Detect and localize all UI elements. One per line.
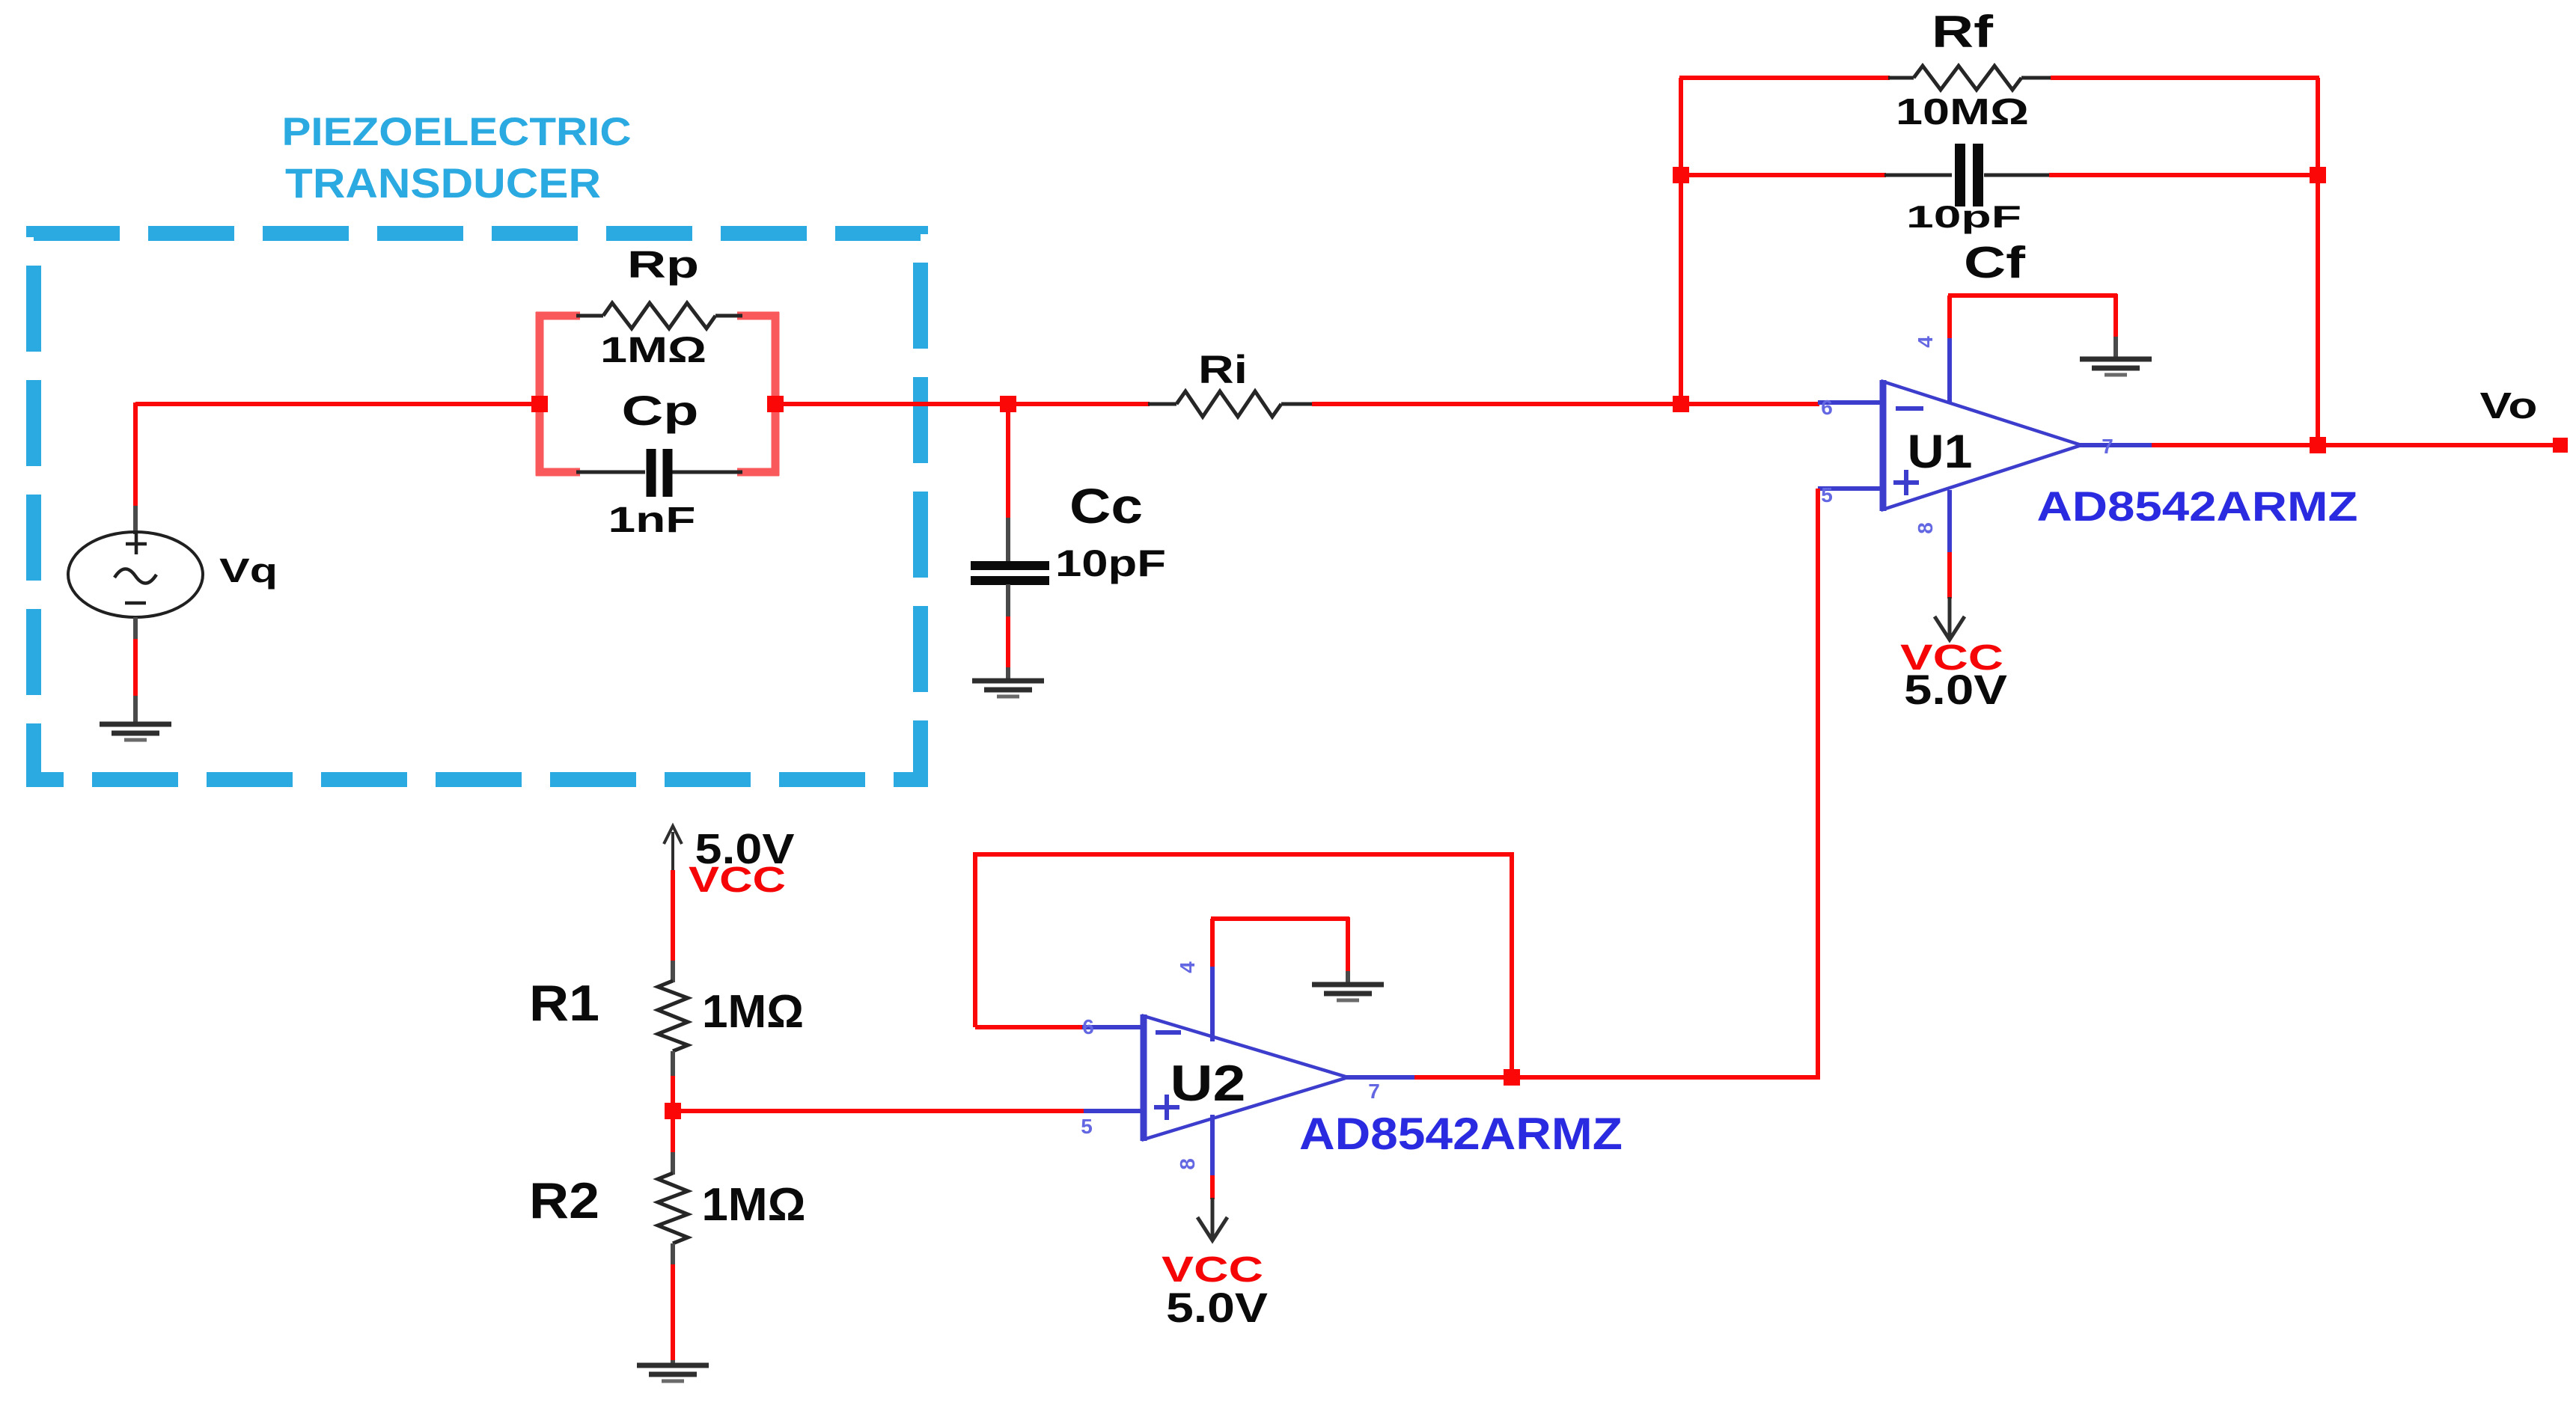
svg-text:5.0V: 5.0V	[1904, 666, 2007, 713]
U2 pin number 5	[1081, 1115, 1093, 1138]
U1 plus symbol	[1893, 470, 1919, 495]
U2 non-inverting input pin wire (pin 5)	[1082, 1109, 1145, 1113]
svg-text:10pF: 10pF	[1906, 199, 2021, 234]
svg-text:Ri: Ri	[1198, 348, 1248, 392]
label U2	[1171, 1055, 1246, 1112]
ground for U1 bypass	[2080, 359, 2152, 375]
svg-text:Vq: Vq	[219, 551, 278, 590]
label 10pF for Cf	[1906, 199, 2021, 234]
label VCC for U2	[1162, 1250, 1263, 1290]
label VCC for U1	[1900, 638, 2003, 678]
svg-text:U1: U1	[1908, 426, 1973, 478]
wire Ri to U1 inverting input	[1312, 402, 1819, 406]
label Cp	[622, 387, 699, 434]
node dot right of Rp/Cp box	[767, 396, 784, 412]
svg-text:TRANSDUCER: TRANSDUCER	[285, 159, 601, 206]
label 10M&#937; for Rf	[1896, 92, 2029, 132]
U2 inverting input pin wire (pin 6)	[1082, 1025, 1145, 1029]
label Rf	[1932, 7, 1994, 57]
wire R2 to ground	[671, 1243, 675, 1365]
U1 pin number 4 (rotated)	[1914, 336, 1937, 348]
label U1	[1908, 426, 1973, 478]
svg-text:5: 5	[1821, 483, 1833, 506]
svg-text:8: 8	[1914, 522, 1937, 534]
svg-text:10pF: 10pF	[1055, 542, 1166, 584]
U1 inverting input pin wire (pin 6)	[1818, 400, 1884, 405]
wire U2 output right	[1414, 1075, 1819, 1080]
node dot U2 output junction	[1504, 1069, 1520, 1086]
VCC arrow below U1	[1935, 597, 1965, 640]
label 10pF for Cc	[1055, 542, 1166, 584]
label AD8542ARMZ for U1	[2037, 483, 2358, 530]
VCC arrow below U2	[1197, 1198, 1227, 1240]
label Cf	[1964, 238, 2025, 287]
svg-text:8: 8	[1176, 1158, 1199, 1170]
label R1	[529, 975, 599, 1032]
U2 pin number 4 (rotated)	[1176, 961, 1199, 973]
svg-text:7: 7	[2102, 435, 2113, 458]
svg-text:Vo: Vo	[2480, 386, 2538, 426]
ground below Vq	[100, 724, 171, 740]
label Rp	[627, 243, 699, 286]
wire feedback left vertical	[1679, 78, 1683, 405]
U1 pin number 7	[2102, 435, 2113, 458]
U2 pin number 8 (rotated)	[1176, 1158, 1199, 1170]
label 1nF for Cp	[608, 501, 696, 540]
wire Vq bottom lead	[133, 617, 138, 723]
U1 pin number 8 (rotated)	[1914, 522, 1937, 534]
svg-text:1nF: 1nF	[608, 501, 696, 540]
node dot Vo terminal	[2553, 438, 2568, 453]
svg-text:5.0V: 5.0V	[1166, 1284, 1268, 1331]
wire Cc branch lower	[1006, 584, 1010, 681]
parallel box around Rp and Cp (thick pink outline)	[536, 312, 779, 476]
svg-text:1MΩ: 1MΩ	[600, 331, 706, 370]
U1 pin number 6	[1821, 396, 1833, 419]
wire U1 bypass to ground top	[1948, 294, 2117, 358]
svg-text:6: 6	[1821, 396, 1833, 419]
wire U2 output to U1 non-inverting input	[1512, 489, 1818, 1077]
svg-text:4: 4	[1914, 336, 1937, 348]
U1 pin 4 wire (top, positive supply)	[1947, 296, 1952, 404]
resistor R1 zigzag	[658, 981, 688, 1051]
label Vo	[2480, 386, 2538, 426]
svg-text:R2: R2	[529, 1172, 599, 1229]
resistor Rp leads	[576, 314, 742, 318]
svg-text:5: 5	[1081, 1115, 1093, 1138]
U2 pin 4 wire (top)	[1210, 919, 1215, 1041]
capacitor Cf plates	[1960, 144, 1978, 206]
label 1M&#937; for R1	[702, 986, 804, 1038]
svg-text:Rf: Rf	[1932, 7, 1994, 57]
U2 feedback loop wire (output to inverting input)	[975, 854, 1512, 1079]
wire Rf top right segment	[2051, 76, 2319, 80]
svg-text:Rp: Rp	[627, 243, 699, 286]
svg-text:4: 4	[1176, 961, 1199, 973]
wire Rp/Cp box to Ri	[774, 402, 1150, 406]
U2 pin 8 wire (bottom)	[1210, 1115, 1215, 1199]
label AD8542ARMZ for U2	[1299, 1109, 1623, 1159]
wire VCC to R1	[671, 870, 675, 982]
svg-text:10MΩ: 10MΩ	[1896, 92, 2029, 132]
label 5.0V for U2	[1166, 1284, 1268, 1331]
ground below Cc	[972, 681, 1044, 697]
wire U2 bypass to ground	[1211, 917, 1349, 984]
wire U1 output to Vo	[2152, 443, 2560, 447]
resistor Ri leads	[1148, 403, 1313, 406]
wire divider node to U2 plus input	[673, 1109, 1084, 1113]
svg-text:1MΩ: 1MΩ	[702, 986, 804, 1038]
U1 minus symbol	[1896, 406, 1923, 411]
svg-text:PIEZOELECTRIC: PIEZOELECTRIC	[282, 110, 632, 154]
wire Cf middle left segment	[1681, 173, 1952, 177]
U1 non-inverting input pin wire (pin 5)	[1818, 486, 1884, 491]
U1 output pin wire (pin 7)	[2080, 443, 2153, 447]
svg-text:1MΩ: 1MΩ	[702, 1179, 806, 1231]
svg-text:6: 6	[1082, 1015, 1094, 1038]
wire Cf middle right segment	[1984, 174, 2319, 177]
wire divider node to R2	[671, 1152, 675, 1175]
resistor Ri zigzag	[1176, 391, 1281, 417]
label 5.0V for U1	[1904, 666, 2007, 713]
ground for U2 bypass	[1312, 985, 1384, 1000]
op-amp U2 triangle	[1144, 1014, 1348, 1141]
node dot feedback to output	[2310, 437, 2326, 453]
label TRANSDUCER title line2	[285, 159, 601, 206]
svg-text:Cp: Cp	[622, 387, 699, 434]
node dot divider	[665, 1103, 681, 1119]
capacitor Cc plates	[971, 566, 1049, 581]
label R2	[529, 1172, 599, 1229]
ground below R2	[637, 1365, 709, 1381]
node dot Cf right	[2310, 167, 2326, 183]
svg-text:Cf: Cf	[1964, 238, 2025, 287]
U1 pin number 5	[1821, 483, 1833, 506]
U2 minus symbol	[1156, 1030, 1181, 1035]
label Ri	[1198, 348, 1248, 392]
node dot left of Rp/Cp box	[531, 396, 548, 412]
svg-text:AD8542ARMZ: AD8542ARMZ	[1299, 1109, 1623, 1159]
label Cc	[1069, 478, 1143, 533]
svg-text:VCC: VCC	[689, 860, 786, 900]
source Vq (AC voltage source)	[68, 532, 203, 617]
label 1M&#937; for Rp	[600, 331, 706, 370]
wire feedback right vertical	[2316, 78, 2320, 447]
label PIEZOELECTRIC title line1	[282, 110, 632, 154]
svg-text:Cc: Cc	[1069, 478, 1143, 533]
5.0V supply arrow above R1	[664, 826, 682, 872]
U2 output pin wire (pin 7)	[1346, 1075, 1416, 1080]
U2 plus symbol	[1154, 1095, 1179, 1120]
wire Cc branch upper	[1006, 404, 1010, 562]
svg-text:AD8542ARMZ: AD8542ARMZ	[2037, 483, 2358, 530]
wire Rf top left segment	[1679, 76, 1890, 80]
label Vq	[219, 551, 278, 590]
U2 pin number 6	[1082, 1015, 1094, 1038]
node dot Cf left	[1673, 167, 1689, 183]
label 5.0V supply	[695, 825, 795, 873]
resistor Rp zigzag	[603, 303, 715, 328]
node dot at Cc tap	[1000, 396, 1016, 412]
transducer dashed boundary box	[34, 233, 921, 780]
U1 pin 8 wire (bottom, negative supply)	[1947, 490, 1952, 599]
capacitor Cp leads	[576, 471, 742, 474]
wire Vq top lead to main node	[133, 403, 138, 534]
svg-text:7: 7	[1368, 1080, 1380, 1103]
label 1M&#937; for R2	[702, 1179, 806, 1231]
svg-text:R1: R1	[529, 975, 599, 1032]
capacitor Cp plates	[651, 449, 668, 497]
svg-text:U2: U2	[1171, 1055, 1246, 1112]
wire main node Vq to Rp/Cp box	[135, 402, 541, 406]
label VCC supply	[689, 860, 786, 900]
resistor R2 zigzag	[658, 1173, 688, 1243]
U2 pin number 7	[1368, 1080, 1380, 1103]
op-amp U1 triangle	[1883, 380, 2081, 511]
node dot feedback tap on input wire	[1673, 396, 1689, 412]
resistor Rf zigzag	[1914, 66, 2021, 90]
wire R1 to divider node	[671, 1051, 675, 1154]
resistor Rf leads	[1888, 76, 2052, 80]
